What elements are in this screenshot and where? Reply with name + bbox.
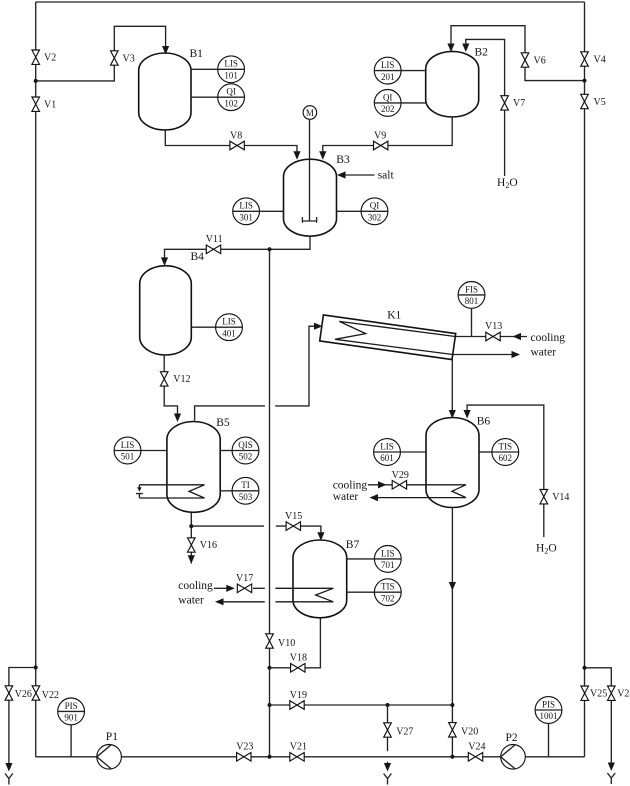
label cooling water B7 (178, 580, 213, 607)
svg-text:401: 401 (222, 328, 236, 338)
arrow feed into B7 (317, 532, 324, 541)
svg-text:701: 701 (381, 560, 395, 570)
wire H2O feed via V7 to B2 (466, 39, 505, 176)
svg-text:LIS: LIS (381, 548, 395, 558)
wire PIS 901 tap (70, 725, 72, 757)
wire B5 steam inlet stub (138, 485, 140, 488)
wire V15 line from B5 outlet (left of crossing) (191, 525, 264, 527)
svg-text:water: water (178, 595, 204, 607)
wire TIS 702 tap (347, 591, 375, 593)
svg-text:V3: V3 (123, 53, 135, 64)
agitator shaft and paddle (302, 119, 316, 223)
instrument QI 302 (361, 198, 388, 225)
wire LIS 701 tap (347, 558, 375, 560)
instrument PIS 901 (58, 698, 85, 725)
instrument LIS 501 (114, 437, 141, 464)
instrument LIS 301 (233, 198, 260, 225)
svg-text:B5: B5 (216, 417, 230, 429)
svg-text:B2: B2 (475, 47, 489, 59)
arrow B7 coolant in (226, 585, 235, 592)
svg-text:M: M (306, 108, 314, 118)
svg-text:101: 101 (224, 71, 238, 81)
node junction right riser / V28 branch (583, 666, 587, 670)
instrument QI 102 (218, 84, 245, 111)
wire H2O feed via V14 to B6 (467, 405, 544, 537)
node junction B6 outlet / V19 line (450, 703, 454, 707)
svg-text:V22: V22 (42, 690, 59, 701)
wire LIS 401 tap (191, 326, 215, 328)
wire QIS 502 tap (220, 450, 232, 452)
coil B5 heating coil (139, 485, 204, 498)
arrow B6 coolant out (370, 494, 379, 501)
valve V25 (581, 686, 607, 700)
svg-text:B4: B4 (191, 251, 205, 263)
valve V1 (32, 97, 56, 111)
wire V27 drain line lower (387, 762, 389, 766)
svg-text:V21: V21 (290, 742, 307, 753)
node V26 drain outlet Y (5, 774, 13, 785)
svg-text:302: 302 (368, 213, 382, 223)
valve V11 (206, 234, 223, 254)
svg-text:LIS: LIS (380, 441, 394, 451)
node junction left riser / V26 branch (34, 666, 38, 670)
svg-text:LIS: LIS (381, 60, 395, 70)
arrow H2O into B6 (464, 410, 471, 419)
valve V3 (111, 51, 135, 65)
wire B5 vapor line to K1 (left of crossing) (195, 406, 265, 421)
arrow feed into B3 left (293, 151, 300, 160)
svg-text:3: 3 (0, 689, 1, 700)
svg-text:salt: salt (378, 170, 395, 182)
instrument LIS 201 (374, 57, 401, 84)
svg-text:601: 601 (380, 453, 394, 463)
svg-text:V9: V9 (374, 130, 386, 141)
svg-text:P2: P2 (506, 732, 518, 744)
valve V12 (160, 372, 190, 386)
svg-text:B1: B1 (190, 48, 204, 60)
svg-text:cooling: cooling (531, 332, 566, 344)
arrow feed into B1 (162, 46, 169, 55)
valve V21 (290, 742, 307, 762)
valve V2 (32, 50, 56, 64)
arrow B6 coolant in (378, 481, 387, 488)
svg-text:V17: V17 (236, 573, 253, 584)
node junction drop line / V18 line (268, 666, 272, 670)
svg-text:901: 901 (64, 713, 78, 723)
svg-text:V26: V26 (15, 689, 32, 700)
arrow V16 drain outlet (188, 555, 195, 564)
valve V24 (468, 742, 485, 762)
vessel B3 (284, 159, 337, 236)
svg-text:PIS: PIS (542, 699, 555, 709)
wire B4 outlet via V12 to B5 (164, 355, 177, 421)
coil B6 cooling coil (in via V29, zigzag, out) (368, 485, 466, 498)
wire top header pipe (36, 1, 585, 3)
svg-text:QI: QI (370, 201, 380, 211)
svg-text:602: 602 (499, 453, 513, 463)
wire bottom header pipe (36, 756, 585, 758)
arrow feed into K1 (314, 323, 323, 330)
vessel B5 (167, 422, 220, 513)
wire V26 drain branch (9, 668, 36, 766)
valve V8 (230, 130, 244, 150)
wire K1 condensate line to B6 (451, 360, 453, 417)
svg-text:LIS: LIS (222, 317, 236, 327)
valve V17 (236, 573, 253, 593)
svg-text:LIS: LIS (224, 59, 238, 69)
node V28 drain outlet Y (607, 773, 615, 784)
valve V14 (540, 490, 569, 504)
instrument QIS 502 (232, 437, 259, 464)
valve V23 (236, 742, 253, 762)
wire TI 503 tap (220, 490, 233, 492)
svg-text:1001: 1001 (540, 711, 558, 721)
arrow feed into B4 (161, 257, 168, 266)
svg-text:301: 301 (239, 213, 253, 223)
valve V6 (521, 53, 546, 67)
svg-text:QI: QI (226, 87, 236, 97)
node junction drop line / bottom header (268, 755, 272, 759)
svg-text:V16: V16 (200, 540, 217, 551)
wire right riser pipe (584, 2, 586, 757)
svg-text:V29: V29 (392, 470, 409, 481)
node V27 drain outlet Y (384, 774, 392, 785)
wire LIS 201 tap (401, 70, 426, 72)
wire QI 102 tap (191, 96, 218, 98)
valve V13 (485, 321, 502, 341)
svg-text:LIS: LIS (239, 201, 253, 211)
wire LIS 601 tap (400, 451, 426, 453)
wire B5 condensate stub (136, 494, 143, 498)
wire LIS 501 tap (141, 450, 167, 452)
svg-text:V2: V2 (44, 53, 56, 64)
svg-text:V8: V8 (230, 130, 242, 141)
vessel B4 (140, 266, 192, 355)
valve V16 (188, 538, 218, 552)
svg-text:V27: V27 (396, 726, 413, 737)
wire B5 outlet line (190, 512, 192, 539)
valve V28 (608, 686, 630, 700)
arrow B7 coolant out (215, 598, 224, 605)
arrow salt feed into B3 (337, 171, 346, 178)
wire QI 202 tap (401, 102, 426, 104)
wire vapor line from right riser via V6 to B2 (451, 26, 585, 81)
node junction right riser / V6 line (583, 79, 587, 83)
svg-text:V1: V1 (44, 100, 56, 111)
svg-text:V7: V7 (513, 98, 525, 109)
svg-text:501: 501 (121, 452, 135, 462)
heat-exchanger K1 shell (320, 315, 456, 360)
valve V29 (392, 470, 409, 489)
wire left riser pipe (35, 2, 37, 757)
wire feed line to B1 via V3 (36, 26, 166, 81)
svg-text:V20: V20 (461, 726, 478, 737)
svg-text:TI: TI (241, 480, 250, 490)
svg-text:V19: V19 (290, 690, 307, 701)
valve V7 (501, 96, 525, 110)
wire TIS 602 tap (479, 451, 492, 453)
wire LIS 301 tap (260, 210, 284, 212)
svg-text:V5: V5 (594, 97, 606, 108)
svg-text:TIS: TIS (381, 582, 395, 592)
node junction B6 outlet / bottom header (450, 755, 454, 759)
valve V19 (290, 690, 307, 709)
svg-text:cooling: cooling (333, 479, 368, 491)
valve V26 (5, 686, 32, 700)
arrow feed into B3 right (319, 151, 326, 160)
svg-text:water: water (531, 346, 557, 358)
pump P1 (97, 745, 122, 770)
wire PIS 1001 tap (548, 723, 550, 756)
vessel B6 (426, 418, 479, 508)
svg-text:502: 502 (239, 452, 253, 462)
arrow feed into B2 right (462, 44, 469, 53)
svg-text:B6: B6 (477, 415, 491, 427)
valve V10 (266, 634, 296, 649)
arrow feed into B2 left (447, 44, 454, 53)
valve V22 (32, 686, 59, 701)
wire V16 drain stub (190, 552, 192, 564)
label cooling water B6 (333, 479, 368, 503)
svg-text:V14: V14 (552, 492, 569, 503)
pump P2 (501, 745, 526, 770)
svg-text:V24: V24 (468, 742, 485, 753)
wire FIS 801 tap (471, 309, 473, 337)
arrow flow on B6 outlet (449, 582, 456, 591)
node junction left riser / V3 line (34, 79, 38, 83)
wire V27 drain line upper (387, 705, 389, 751)
wire B6 outlet line (451, 507, 453, 757)
instrument LIS 701 (374, 546, 401, 573)
motor M of agitator (303, 106, 317, 120)
arrow cooling water inlet flow (513, 333, 522, 340)
arrow B5 steam inlet (137, 487, 141, 492)
wire B3 outlet via V11 to B4 (165, 236, 311, 265)
svg-text:TIS: TIS (499, 441, 513, 451)
wire main vertical drop line (269, 249, 271, 757)
valve V18 (290, 652, 307, 672)
svg-text:V13: V13 (485, 321, 502, 332)
instrument TIS 602 (492, 439, 519, 466)
svg-text:503: 503 (239, 492, 253, 502)
svg-text:B3: B3 (336, 154, 350, 166)
svg-text:V6: V6 (534, 55, 546, 66)
wire V19 cross line (270, 704, 453, 706)
wire salt feed line (346, 174, 375, 176)
svg-text:water: water (333, 491, 359, 503)
svg-text:K1: K1 (387, 310, 401, 322)
svg-text:QI: QI (383, 92, 393, 102)
instrument LIS 401 (216, 314, 243, 341)
instrument LIS 601 (374, 439, 401, 466)
coil B7 cooling coil (in via V17, zigzag, out) (214, 588, 333, 602)
arrow cooling water outlet flow (512, 351, 521, 358)
svg-text:V15: V15 (285, 511, 302, 522)
arrow condensate into B6 (449, 410, 456, 419)
svg-text:V25: V25 (590, 689, 607, 700)
wire B1 outlet via V8 to B3 (165, 130, 297, 159)
wire V15 line to B7 (right of crossing) (276, 526, 321, 539)
svg-text:P1: P1 (106, 731, 118, 743)
wire B7 outlet via V18 to drop line (270, 617, 321, 668)
vessel B1 (139, 53, 191, 130)
svg-text:V11: V11 (206, 234, 223, 245)
svg-text:LIS: LIS (121, 440, 135, 450)
vessel B2 (426, 51, 479, 117)
wire K1 cooling water inlet line (455, 336, 527, 338)
svg-text:V10: V10 (278, 638, 295, 649)
svg-text:V4: V4 (594, 54, 606, 65)
label cooling water K1 (531, 332, 566, 359)
instrument QI 202 (374, 90, 401, 117)
valve V27 (384, 723, 414, 738)
wire K1 cooling water outlet line (453, 354, 512, 356)
instrument LIS 101 (218, 56, 245, 83)
svg-text:V28: V28 (617, 689, 630, 700)
arrow feed into B5 (174, 414, 181, 423)
wire QI 302 tap (337, 210, 362, 212)
valve V5 (581, 94, 606, 108)
wire B2 outlet via V9 to B3 (323, 117, 452, 159)
svg-text:202: 202 (381, 104, 395, 114)
svg-text:V12: V12 (173, 374, 190, 385)
svg-text:801: 801 (465, 296, 479, 306)
wire B5 vapor line to K1 (right of crossing) (275, 326, 320, 406)
heat-exchanger K1 coil (335, 321, 455, 354)
node junction V19 line / V27 drain (386, 703, 390, 707)
svg-text:B7: B7 (346, 539, 360, 551)
wire LIS 101 tap (191, 68, 218, 70)
svg-text:702: 702 (381, 593, 395, 603)
node junction V11 line / main drop line (268, 247, 272, 251)
valve V15 (285, 511, 302, 530)
svg-text:V23: V23 (236, 742, 253, 753)
arrow V26 drain (5, 763, 12, 772)
svg-text:FIS: FIS (465, 284, 478, 294)
svg-text:V18: V18 (290, 652, 307, 663)
instrument FIS 801 (458, 282, 485, 309)
node junction drop line / V19 line (268, 703, 272, 707)
svg-text:QIS: QIS (238, 440, 253, 450)
arrow V28 drain (608, 763, 615, 772)
valve V9 (374, 130, 388, 150)
vessel B7 (293, 540, 347, 618)
instrument TIS 702 (374, 579, 401, 606)
svg-text:PIS: PIS (65, 701, 78, 711)
wire V28 drain branch (585, 668, 612, 765)
valve V20 (449, 723, 479, 738)
svg-text:201: 201 (381, 72, 395, 82)
svg-text:cooling: cooling (178, 580, 213, 592)
node junction B5 outlet / V15 line (189, 524, 193, 528)
svg-text:102: 102 (224, 98, 238, 108)
instrument TI 503 (232, 477, 259, 504)
valve V4 (581, 52, 606, 66)
instrument PIS 1001 (535, 697, 562, 724)
arrow V27 drain (384, 763, 391, 772)
